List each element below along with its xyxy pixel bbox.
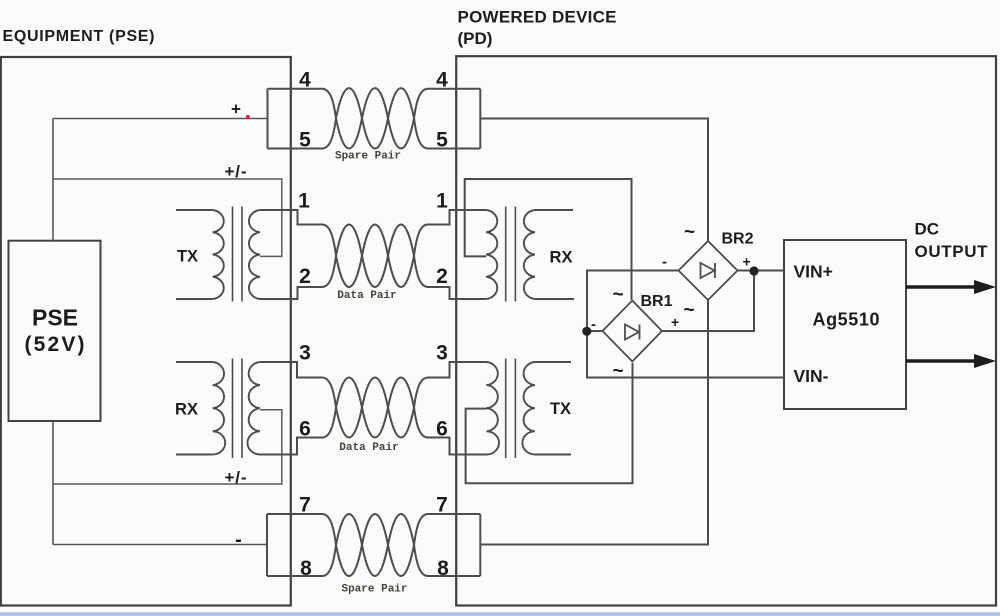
svg-text:-: - bbox=[235, 529, 242, 551]
svg-text:RX: RX bbox=[550, 249, 573, 267]
module U1 Ag5510 bbox=[784, 240, 906, 409]
arrow DC output negative bbox=[906, 354, 996, 368]
wire +/- TX center tap feed bbox=[53, 179, 282, 256]
RX PD secondary winding bbox=[524, 210, 535, 299]
red dot artifact bbox=[246, 115, 250, 119]
svg-text:TX: TX bbox=[550, 400, 571, 418]
svg-text:~: ~ bbox=[684, 300, 695, 321]
transformer TX (PD) bbox=[487, 359, 572, 459]
svg-text:(PD): (PD) bbox=[458, 29, 493, 48]
svg-text:2: 2 bbox=[299, 265, 311, 288]
TX PD core line 1 bbox=[505, 359, 507, 459]
RX PSE core line 1 bbox=[232, 359, 234, 459]
RX PSE primary winding bbox=[213, 362, 226, 455]
BR1 diamond body bbox=[603, 301, 663, 362]
wire minus bus BR2- to BR1- to VIN- bbox=[587, 271, 784, 378]
svg-text:Data Pair: Data Pair bbox=[339, 442, 398, 454]
svg-text:7: 7 bbox=[299, 494, 311, 517]
TX PSE core line 1 bbox=[232, 207, 234, 302]
wire BR1 minus stub bbox=[587, 330, 602, 332]
RX PSE primary lead bottom bbox=[176, 454, 213, 456]
svg-text:+/-: +/- bbox=[225, 162, 247, 181]
bridge rectifier BR2 bbox=[679, 241, 738, 300]
svg-text:5: 5 bbox=[299, 129, 311, 152]
svg-text:4: 4 bbox=[299, 69, 311, 92]
PSE equipment enclosure box bbox=[1, 57, 291, 606]
TX PD secondary winding bbox=[522, 362, 535, 455]
twisted pair 1/2 data pair top bbox=[260, 210, 486, 299]
wire TX PD center tap to BR1 ~ bottom bbox=[466, 363, 633, 483]
svg-text:Spare Pair: Spare Pair bbox=[341, 584, 407, 596]
svg-text:6: 6 bbox=[299, 418, 311, 441]
BR2 diode symbol bbox=[701, 263, 716, 278]
wire BR2 plus to VIN+ bbox=[737, 270, 784, 272]
spare pair top wire A bbox=[268, 88, 481, 148]
svg-text:5: 5 bbox=[436, 129, 448, 152]
twisted pair 7/8 spare pair bottom bbox=[267, 514, 480, 576]
svg-text:+: + bbox=[671, 314, 679, 330]
svg-text:4: 4 bbox=[436, 69, 448, 92]
svg-text:-: - bbox=[662, 254, 667, 271]
svg-text:~: ~ bbox=[684, 222, 695, 243]
twisted pair 3/6 data pair bottom bbox=[260, 362, 487, 455]
svg-text:7: 7 bbox=[436, 494, 448, 517]
twisted pair 4/5 spare pair top bbox=[268, 88, 481, 148]
svg-text:BR1: BR1 bbox=[641, 293, 673, 310]
transformer TX (PSE) bbox=[176, 207, 260, 302]
wire spare pair top to BR2 ~ top bbox=[480, 119, 708, 242]
svg-text:~: ~ bbox=[613, 361, 624, 382]
BR1 diode symbol bbox=[625, 325, 640, 340]
wire PSE vertical riser top (box top to + corner) bbox=[52, 119, 54, 241]
RX PD primary winding bbox=[486, 210, 497, 299]
bottom window blue bar bbox=[0, 612, 1000, 616]
PD enclosure box bbox=[456, 56, 996, 605]
TX PSE primary lead top bbox=[176, 209, 213, 211]
svg-text:POWERED DEVICE: POWERED DEVICE bbox=[458, 8, 617, 27]
TX PSE secondary winding bbox=[249, 210, 260, 299]
svg-text:TX: TX bbox=[177, 248, 198, 266]
wire - negative feed to spare pair 7/8 bbox=[53, 544, 267, 546]
svg-text:DC: DC bbox=[915, 220, 940, 239]
TX PSE primary winding bbox=[213, 210, 224, 299]
wire RX PD center tap to BR1 ~ top bbox=[465, 179, 632, 300]
PSE (52V) source box bbox=[9, 241, 101, 421]
spare pair top left connector edge bbox=[267, 89, 269, 149]
data pair bottom wire B bbox=[260, 378, 487, 455]
bridge rectifier BR1 bbox=[603, 301, 663, 362]
svg-text:-: - bbox=[591, 316, 596, 333]
RX PD core line 1 bbox=[505, 207, 507, 302]
RX PD core line 2 bbox=[514, 207, 516, 302]
arrow DC output positive bbox=[906, 280, 996, 294]
data pair bottom wire A bbox=[260, 362, 487, 438]
svg-text:Spare Pair: Spare Pair bbox=[335, 151, 401, 163]
RX PSE core line 2 bbox=[241, 359, 243, 459]
BR2 diamond body bbox=[679, 241, 738, 300]
wire BR1 plus to VIN+ bus bbox=[662, 271, 754, 331]
spare pair bottom right connector edge bbox=[479, 514, 481, 576]
TX PSE core line 2 bbox=[241, 207, 243, 302]
spare pair bottom wire A bbox=[267, 514, 480, 576]
RX PD secondary lead bottom stub bbox=[535, 298, 574, 300]
svg-text:1: 1 bbox=[298, 190, 310, 213]
spare pair bottom wire B bbox=[267, 514, 480, 576]
svg-text:6: 6 bbox=[436, 418, 448, 441]
TX PSE primary lead bottom bbox=[176, 298, 213, 300]
wire spare pair bottom to BR2 ~ bottom bbox=[480, 300, 708, 545]
svg-text:BR2: BR2 bbox=[722, 231, 754, 248]
svg-text:1: 1 bbox=[436, 190, 448, 213]
svg-text:8: 8 bbox=[437, 557, 449, 580]
svg-text:8: 8 bbox=[300, 557, 312, 580]
TX PD primary winding bbox=[487, 362, 500, 455]
junction node VIN+ bbox=[749, 266, 758, 275]
RX PSE secondary winding bbox=[247, 362, 260, 455]
svg-text:3: 3 bbox=[436, 342, 448, 365]
svg-text:+: + bbox=[231, 100, 241, 119]
wire PSE vertical riser bottom (box bottom to - corner) bbox=[52, 421, 54, 545]
wire +/- RX center tap feed bbox=[53, 410, 282, 484]
svg-text:Data Pair: Data Pair bbox=[337, 290, 396, 302]
svg-text:RX: RX bbox=[175, 401, 198, 419]
data pair top wire B bbox=[260, 225, 486, 299]
RX PD secondary lead top stub bbox=[535, 209, 573, 211]
svg-text:VIN-: VIN- bbox=[794, 366, 829, 386]
svg-text:2: 2 bbox=[436, 265, 448, 288]
TX PD secondary lead bottom stub bbox=[535, 454, 571, 456]
spare pair bottom left connector edge bbox=[266, 514, 268, 576]
svg-text:3: 3 bbox=[299, 342, 311, 365]
data pair top wire A bbox=[260, 210, 486, 287]
TX PD core line 2 bbox=[514, 359, 516, 459]
svg-text:EQUIPMENT (PSE): EQUIPMENT (PSE) bbox=[3, 28, 155, 45]
svg-text:PSE: PSE bbox=[32, 305, 78, 331]
svg-text:Ag5510: Ag5510 bbox=[813, 310, 880, 330]
transformer RX (PSE) bbox=[176, 359, 260, 459]
svg-text:OUTPUT: OUTPUT bbox=[915, 242, 989, 261]
spare pair top right connector edge bbox=[479, 89, 481, 149]
TX PD secondary lead top stub bbox=[535, 361, 571, 363]
wire + positive feed to spare pair 4/5 bbox=[53, 118, 268, 120]
svg-text:VIN+: VIN+ bbox=[794, 262, 833, 282]
transformer RX (PD) bbox=[486, 207, 574, 302]
svg-text:+/-: +/- bbox=[225, 468, 247, 487]
svg-text:+: + bbox=[743, 254, 751, 270]
svg-text:~: ~ bbox=[613, 285, 624, 306]
junction node minus bus bbox=[582, 327, 591, 336]
RX PSE primary lead top bbox=[176, 361, 213, 363]
spare pair top wire B bbox=[268, 88, 481, 148]
